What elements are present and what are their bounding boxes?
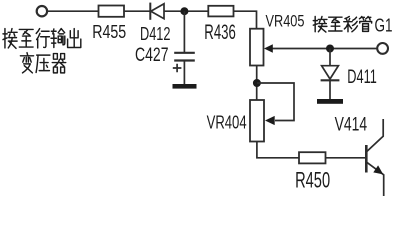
wire VR405 bottom to VR404 top — [256, 66, 258, 101]
svg-text:VR405: VR405 — [266, 12, 305, 30]
node junction top — [180, 7, 188, 15]
VR405 wiper wire to terminal G1 — [272, 48, 377, 50]
wire R450 to V414 base — [326, 157, 366, 159]
potentiometer VR404 — [250, 100, 264, 142]
diode D411 — [322, 66, 339, 79]
svg-text:V414: V414 — [335, 115, 368, 136]
wire D411 to ground — [329, 80, 331, 99]
svg-text:C427: C427 — [135, 44, 169, 66]
ground (D411) — [317, 99, 343, 104]
resistor R436 — [208, 6, 233, 17]
svg-text:D412: D412 — [140, 23, 171, 44]
label 接至彩管 — [313, 16, 327, 32]
label 变压器 — [20, 53, 33, 73]
resistor R455 — [99, 6, 125, 17]
wire input to R455 — [48, 10, 99, 12]
svg-text:R436: R436 — [204, 21, 236, 44]
svg-text:R450: R450 — [295, 168, 330, 193]
wire C427 to ground — [183, 61, 185, 85]
wire wiper loop VR404 — [257, 83, 294, 121]
wire node to C427 — [183, 11, 185, 52]
wire D412 to R436 — [164, 10, 208, 12]
transistor V414 — [365, 145, 368, 173]
wire R455 to D412 — [124, 10, 150, 12]
node junction wiper/D411 — [326, 45, 334, 53]
node junction VR404 top — [253, 79, 261, 87]
svg-text:R455: R455 — [92, 21, 126, 42]
svg-text:D411: D411 — [347, 66, 377, 88]
wire VR404 bottom to R450 — [257, 142, 299, 158]
terminal G1 circle — [377, 43, 388, 54]
svg-text:G1: G1 — [375, 15, 393, 36]
potentiometer VR405 — [250, 29, 264, 66]
wire R436 to VR405 — [234, 11, 257, 29]
resistor R450 — [299, 152, 326, 163]
capacitor C427 — [174, 52, 195, 54]
diode D412 — [149, 3, 151, 20]
svg-text:VR404: VR404 — [207, 113, 247, 134]
terminal input circle — [37, 6, 47, 16]
wire node to D411 — [329, 49, 331, 66]
label 接至行输出 — [3, 29, 17, 49]
ground (C427) — [173, 84, 197, 89]
